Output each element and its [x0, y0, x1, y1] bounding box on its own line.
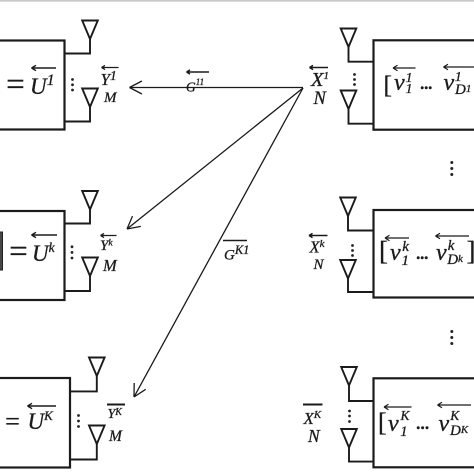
formula TX1 v1 — [394, 71, 405, 95]
ellipsis RXk antennas — [71, 245, 74, 259]
wire RXk bottom — [65, 276, 91, 291]
antenna TXK bottom — [341, 429, 357, 448]
antenna TX1 bottom — [341, 91, 357, 110]
formula TX1 v1 sub — [406, 83, 413, 97]
receiver box RXk — [0, 211, 65, 300]
overarrow vDk — [436, 233, 470, 239]
label = U1 equals — [4, 69, 26, 102]
wire RXk top — [65, 210, 91, 224]
channel arrow GK1 to RXK — [134, 88, 303, 397]
receiver box RX1 — [0, 41, 65, 130]
label Y1 — [101, 69, 117, 88]
label N1 — [314, 90, 326, 109]
wire TXK top — [349, 386, 374, 402]
label Yk — [100, 239, 113, 254]
wire RXK top — [70, 376, 97, 391]
label Xk — [310, 239, 325, 256]
overarrow Yk — [101, 233, 117, 237]
label GK1 — [224, 244, 249, 264]
overarrow vDK — [438, 402, 472, 408]
overarrow XK — [303, 404, 323, 406]
wire RX1 bottom — [65, 107, 91, 122]
formula TXK bracket — [378, 410, 387, 436]
wire TXK bottom — [349, 448, 374, 462]
label U1 — [30, 73, 55, 98]
antenna TX1 top — [341, 29, 357, 48]
formula TXK v1 sup — [401, 409, 410, 423]
wire RXK bottom — [70, 444, 97, 460]
antenna TXk top — [340, 198, 356, 217]
label G11 — [186, 78, 204, 94]
formula TXK v2 sup — [450, 409, 459, 423]
dark bar in box RXk — [0, 232, 3, 270]
formula TXk bracket — [379, 238, 388, 265]
formula TXK v2 — [439, 412, 450, 436]
overarrow G11 — [187, 70, 210, 74]
formula TXk v2 — [436, 241, 447, 265]
antenna RXK top — [89, 358, 105, 377]
overarrow GK1 — [223, 240, 247, 242]
wire TX1 bottom — [349, 109, 374, 124]
formula TXk close bracket — [467, 238, 474, 265]
formula TX1 v2 — [444, 71, 455, 95]
antenna RXk bottom — [82, 258, 98, 277]
antenna TXK top — [341, 367, 357, 386]
formula TX1 v2 sub — [455, 83, 471, 98]
overarrow vk1 — [385, 235, 409, 241]
formula TX1 bracket — [384, 72, 393, 98]
overarrow UK — [28, 403, 57, 408]
formula TXk v1 sub — [402, 254, 410, 269]
formula TXK v1 — [388, 412, 399, 436]
formula TXk v2 sub — [447, 253, 463, 268]
crop edge band at top — [0, 0, 474, 2]
ellipsis between TXk TXK — [450, 330, 453, 345]
overarrow Uk — [32, 232, 58, 237]
transmitter box TX1 — [374, 40, 474, 129]
formula TXk v1 sup — [402, 240, 409, 255]
formula TXK v1 sub — [400, 425, 407, 440]
ellipsis TXk antennas — [351, 244, 354, 257]
ellipsis formula TXK — [417, 426, 429, 429]
wire TX1 top — [349, 47, 374, 62]
overarrow U1 — [32, 65, 57, 70]
overarrow YK — [107, 404, 125, 406]
antenna RXK bottom — [89, 426, 105, 445]
wire TXk bottom — [348, 279, 374, 293]
overarrow v11 — [393, 65, 416, 71]
label XK — [304, 410, 322, 427]
label = Uk equals — [7, 236, 29, 269]
antenna RX1 top — [82, 21, 98, 40]
label UK — [28, 409, 53, 433]
overarrow vD1 — [444, 64, 474, 70]
channel arrow to RXk — [127, 88, 303, 229]
label YK — [108, 408, 122, 422]
transmitter box TXk — [374, 210, 474, 298]
formula TX1 v2 sup — [455, 71, 462, 85]
label M3 — [109, 429, 122, 445]
receiver box RXK — [0, 378, 70, 468]
channel arrow G11 — [130, 81, 304, 94]
ellipsis RX1 antennas — [71, 78, 74, 91]
label M2 — [103, 258, 117, 275]
antenna RX1 bottom — [82, 89, 98, 108]
label N2 — [314, 258, 324, 273]
overarrow Xk — [309, 233, 328, 237]
wire TXk top — [348, 216, 374, 231]
overarrow vK1 — [384, 404, 412, 410]
overarrow X1 — [310, 65, 329, 69]
label X1 — [311, 70, 329, 91]
label N3 — [308, 428, 320, 446]
label Uk — [32, 241, 55, 265]
ellipsis between TX1 TXk — [450, 161, 453, 176]
label = UK equals — [4, 409, 22, 435]
wire RX1 top — [65, 39, 91, 54]
formula TXK v2 sub — [450, 424, 468, 439]
label M1 — [104, 91, 117, 106]
ellipsis RXK antennas — [77, 414, 80, 428]
antenna RXk top — [82, 191, 98, 210]
ellipsis formula TXk — [417, 256, 428, 259]
overarrow Y1 — [102, 65, 119, 69]
ellipsis TX1 antennas — [353, 73, 356, 86]
formula TXk v2 sup — [448, 239, 455, 254]
transmitter box TXK — [374, 378, 474, 467]
formula TX1 v1 sup — [406, 72, 413, 86]
ellipsis formula TX1 — [421, 86, 432, 89]
formula TXk v1 — [390, 241, 401, 265]
ellipsis TXK antennas — [348, 410, 351, 423]
antenna TXk bottom — [340, 260, 356, 279]
